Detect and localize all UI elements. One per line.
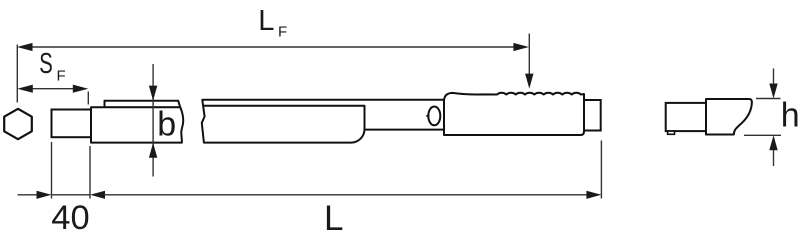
svg-text:b: b bbox=[157, 105, 176, 143]
svg-text:40: 40 bbox=[51, 199, 89, 231]
hex bit cross-section bbox=[4, 109, 32, 139]
dimension 40 bbox=[18, 142, 91, 199]
wrench body mid sleeve and rod section bbox=[202, 100, 444, 143]
svg-text:F: F bbox=[57, 67, 66, 84]
dimension h bbox=[744, 69, 781, 167]
svg-text:L: L bbox=[324, 199, 343, 231]
oval adjustment hole bbox=[426, 107, 441, 126]
handle grip with wavy top bbox=[444, 93, 584, 135]
handle end cap bbox=[584, 100, 601, 131]
insert tool head (right view) bbox=[706, 99, 752, 135]
svg-text:h: h bbox=[781, 96, 800, 134]
svg-text:L: L bbox=[258, 5, 274, 37]
dimension b bbox=[152, 64, 154, 177]
dimension S_F bbox=[30, 89, 88, 105]
wrench head with break line bbox=[91, 107, 183, 142]
square drive tang bbox=[52, 110, 92, 138]
dimension L bbox=[104, 141, 601, 199]
svg-text:S: S bbox=[39, 48, 53, 80]
svg-text:F: F bbox=[278, 24, 287, 41]
insert tool clip notch bbox=[668, 131, 675, 134]
head top plate bbox=[105, 101, 181, 108]
insert tool shank (right view) bbox=[666, 103, 706, 131]
dimension L_F bbox=[17, 34, 529, 103]
